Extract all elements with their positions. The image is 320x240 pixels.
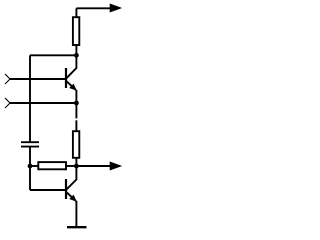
node C junction dot [74, 101, 79, 106]
wire (left rail upper) [29, 55, 31, 141]
wire [75, 45, 77, 55]
resistor R1 [73, 17, 79, 45]
capacitor C1 [21, 142, 39, 146]
ground [67, 226, 87, 228]
power port arrow (top right) [76, 4, 121, 12]
node A junction dot [74, 53, 79, 58]
transistor Q2 [66, 166, 76, 226]
wire (input 1 to Q1 base) [10, 78, 66, 80]
node D junction dot [74, 164, 79, 169]
wire (input 2) [10, 102, 76, 104]
wire [75, 158, 77, 166]
resistor R3 [38, 162, 66, 169]
input port 1 chevron [5, 74, 10, 84]
transistor Q1 [66, 55, 76, 103]
wire [30, 54, 76, 56]
output port arrow [76, 162, 121, 170]
input port 2 chevron [5, 98, 10, 108]
node B junction dot [28, 164, 33, 169]
wire (to Q2 base) [30, 189, 66, 191]
wire [75, 8, 77, 17]
wire [66, 165, 76, 167]
resistor R2 [73, 131, 79, 158]
wire [30, 165, 38, 167]
wire (with small break) [75, 103, 77, 131]
wire (left rail lower) [29, 148, 31, 191]
